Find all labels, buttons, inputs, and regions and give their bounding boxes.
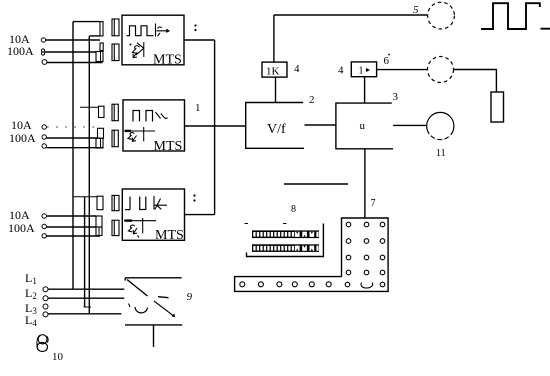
terminal circle group2 c [42,144,46,148]
terminal circle group1 b2 [41,52,44,55]
MTS2 pin lower [112,130,118,147]
pulse former triangle [366,68,370,72]
regulator 9 top edge [125,278,182,281]
wire 1K to Vf [275,77,277,102]
wire 1K to top [273,15,275,62]
CT box group3 lower [96,227,102,236]
terminal circle group3 a [42,214,46,218]
MTS3 K scrawl [128,218,142,238]
MTS3 K bold dash [125,219,133,221]
source symbol 8 echo [37,335,48,351]
connector strip open arc [361,283,373,289]
counter circle 6 [428,57,454,83]
source symbol 8 glyph top loop [38,335,47,344]
CT bar group3 upper [97,196,103,210]
svg-text:1: 1 [359,66,364,77]
MTS1 K2 scrawl [132,42,143,58]
wire MTS3 output [185,214,215,216]
wire pulse former output [377,69,428,71]
wire to oscilloscope top [274,14,427,16]
svg-text:11: 11 [436,148,446,159]
dot above 6 [388,54,390,56]
MTS1 pin lower [112,44,119,61]
connector strip circles [240,282,385,287]
terminal circle group1 a [41,38,45,42]
wire L1 [48,288,124,290]
MTS1 pin upper [112,19,119,36]
bus line 2b [84,197,86,307]
svg-text:4: 4 [338,65,344,77]
wire above ribbon [284,183,348,185]
terminal L2 [43,296,48,301]
CT bar group1 mid [100,43,103,51]
wire group1 common [47,62,103,64]
CT bar group1 upper [100,22,103,36]
regulator 9 dash [158,297,169,298]
svg-text:2: 2 [309,94,315,106]
CT bar group3 upper jog [73,196,97,198]
MTS3 K line [124,220,156,222]
connector grid circles row3 [346,255,385,260]
connector grid circles row1 [346,222,385,227]
wire group2 100A [47,137,98,139]
wire MTS2 output [185,125,246,127]
regulator 9 diagonal A [127,280,148,297]
MTS3 inverted pulse wave [125,197,146,210]
terminal circle group1 b [41,49,44,52]
connector grid circles row4 [346,270,385,275]
wire bus2 top jog [89,35,100,37]
CT box group2 lower [96,138,103,148]
CT bar group3 mid [96,216,102,227]
terminal L1 [43,287,48,292]
svg-text:10A: 10A [11,118,32,132]
ribbon enclosure dash b [283,223,287,225]
CT box group1 lower inner [100,52,102,62]
svg-text:L2: L2 [25,286,37,301]
svg-text:100A: 100A [9,131,36,145]
wire MTS1 output [184,39,215,41]
MTS3 pin lower [112,220,119,235]
wire collector vertical [214,40,216,215]
MTS2 K1 line [125,130,156,132]
wire group3 100A [47,226,97,228]
wire u bottom [364,149,366,218]
MTS3 pin upper [112,195,119,210]
wire L2 [48,297,124,299]
oscilloscope circle 5 [428,2,455,29]
ribbon enclosure right and bottom [247,224,324,257]
svg-text:MTS: MTS [154,139,183,154]
terminal L3 [43,304,48,309]
regulator 9 curve [135,307,148,313]
block V/f [246,103,304,149]
MTS1 square wave [127,26,154,36]
terminal circle group3 c [42,234,46,238]
ribbon enclosure dash a [245,223,249,225]
svg-text:100A: 100A [8,221,35,235]
regulator 9 tick [129,304,131,308]
MTS1 K2 dot [130,44,132,46]
CT box group2 lower inner [100,138,102,148]
terminal circle group2 a [42,125,46,129]
CT box group3 lower inner [98,227,100,236]
MTS1 arrow symbol [156,24,170,37]
svg-text:1K: 1K [266,66,280,78]
MTS3 arrow symbol [154,196,167,210]
wire Vf to u [305,124,336,126]
wire counter to resistor [454,70,497,93]
svg-text:10: 10 [52,351,64,363]
connector grid circles row2 [346,239,385,244]
block MTS2 [123,100,185,151]
svg-text:100A: 100A [7,44,34,58]
connector block outline L-shape [235,218,389,291]
node colon mark lower [193,194,195,201]
MTS2 arrow symbol [156,112,168,119]
terminal circle group3 b [42,224,46,228]
MTS2 K1 bold dash [125,130,132,132]
wire L4 [48,313,121,315]
ribbon cable A [252,230,319,238]
voltmeter circle 11 [427,112,454,139]
bus line 2 [88,36,90,314]
bus 2b end tick [84,306,92,308]
voltmeter circle 11 bottom dash gaps [430,134,452,139]
wire group3 10A [47,215,97,217]
block MTS1 [122,15,184,65]
wire group2 common [47,147,104,149]
svg-text:MTS: MTS [153,53,182,68]
svg-text:6: 6 [384,55,390,67]
regulator 9 diagonal B [154,301,174,316]
svg-text:1: 1 [195,102,201,114]
svg-text:7: 7 [371,198,376,209]
block 1K [262,62,287,77]
resistor R [491,92,504,122]
wire group3 common [47,235,101,237]
regulator 9 lead [153,325,155,347]
MTS2 pin upper [112,104,118,121]
ribbon cable B [252,244,319,252]
terminal circle group1 c [42,60,47,65]
svg-text:5: 5 [413,4,419,16]
regulator 9 bottom edge [125,324,182,326]
block u [336,103,393,149]
block MTS3 [122,189,184,240]
svg-text:V/f: V/f [267,122,286,137]
wire u box top [364,77,366,103]
MTS2 K1 scrawl [128,127,144,141]
CT bar group2 upper jog [80,106,99,108]
block pulse former [351,62,376,77]
CT bar group2 upper [99,106,105,117]
wire bus1 top jog [73,21,100,23]
node colon mark upper [194,24,196,31]
reference square wave [481,3,550,29]
wire group1 100A [45,51,96,53]
svg-text:8: 8 [291,204,296,215]
terminal circle group2 b [42,135,46,139]
MTS2 pulse wave [133,111,153,122]
source symbol 8 glyph bottom loop [37,343,47,352]
wire group2 10A faint [47,126,98,128]
svg-text:3: 3 [393,91,399,103]
svg-text:MTS: MTS [155,228,184,243]
bus line 1 [72,22,74,289]
terminal L4 [43,312,48,317]
svg-text:9: 9 [187,291,193,303]
svg-text:u: u [360,120,366,132]
svg-text:4: 4 [294,63,300,75]
wire u output [393,124,427,126]
svg-text:10A: 10A [9,208,30,222]
CT bar group2 mid [98,128,104,138]
wire group1 10A [46,39,100,41]
CT box group1 lower [96,52,103,62]
svg-text:L1: L1 [25,271,37,286]
